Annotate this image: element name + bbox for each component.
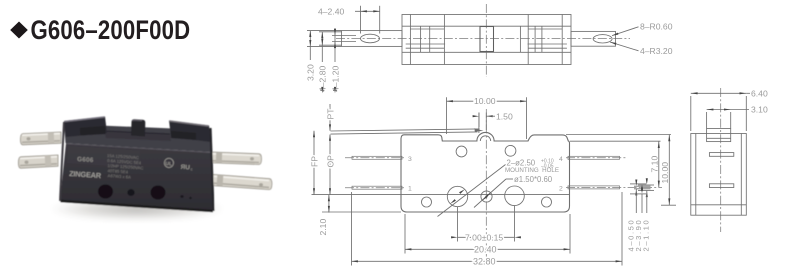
- terminal 2 (front view): [559, 185, 662, 192]
- leader o1.50*0.60: [474, 175, 553, 208]
- hole center extension line: [312, 194, 571, 196]
- svg-text:G606: G606: [77, 156, 94, 164]
- dimension text 4-0.50: [626, 219, 635, 252]
- front view top mounting hole left: [456, 146, 467, 157]
- dimension 4-1.20: [330, 28, 356, 93]
- svg-text:ø1.50*0.60: ø1.50*0.60: [514, 175, 553, 184]
- front view vertical centerline: [485, 109, 487, 258]
- svg-text:1.50: 1.50: [496, 111, 513, 121]
- front view big hole right: [505, 186, 525, 206]
- terminal 3 (front view): [345, 156, 412, 163]
- printed text G606: [77, 156, 94, 164]
- dimension 6.40: [691, 88, 768, 131]
- dimension PT: [325, 104, 335, 131]
- svg-text:MOUNTING HOLE: MOUNTING HOLE: [505, 167, 559, 174]
- top view horizontal centerline: [336, 38, 630, 40]
- top view lower band line: [402, 51, 571, 53]
- switch body bottom edge: [61, 201, 214, 211]
- plunger centerline above hump: [478, 113, 480, 134]
- svg-text:c: c: [190, 166, 192, 171]
- switch terminal right lower: [213, 174, 272, 189]
- printed UL marks: [164, 158, 193, 172]
- top view left terminal block: [406, 15, 445, 65]
- switch terminal left lower: [18, 155, 58, 168]
- side view vertical centerline: [720, 88, 722, 232]
- terminal 1 (front view): [345, 186, 412, 193]
- svg-text:4–R3.20: 4–R3.20: [640, 46, 673, 56]
- top view upper band line: [402, 25, 571, 27]
- dimension 7.00+-0.15: [449, 206, 523, 242]
- svg-text:20.40: 20.40: [474, 244, 497, 254]
- dimension 3.10: [707, 105, 768, 129]
- right extension line from boss top: [566, 134, 671, 136]
- switch body right top block: [169, 121, 211, 143]
- svg-text:7.00±0.15: 7.00±0.15: [465, 232, 503, 242]
- printed text ZINGEAR: [69, 169, 102, 180]
- top view body outline: [402, 15, 571, 65]
- dimension 10.00 (right vertical): [660, 135, 676, 206]
- switch body front face: [60, 143, 214, 211]
- front face small marks: [180, 195, 191, 199]
- top view vertical centerline: [485, 4, 487, 77]
- switch body top face: [64, 124, 212, 152]
- svg-text:10.00: 10.00: [474, 96, 496, 106]
- svg-text:4–1.20: 4–1.20: [330, 65, 340, 92]
- dimension 10.00 (top of front view): [447, 96, 527, 139]
- dimension 7.10: [649, 141, 659, 187]
- front face hole small center: [127, 189, 134, 196]
- leader 4-R3.20: [610, 42, 673, 56]
- right extension line from body top: [570, 140, 661, 142]
- svg-text:3.10: 3.10: [751, 105, 768, 115]
- leader 8-R0.60: [612, 22, 673, 36]
- front view pivot hump inner arc: [480, 136, 490, 141]
- dimension OP: [325, 134, 335, 194]
- top view left terminal blade: [342, 31, 403, 47]
- svg-text:8–R0.60: 8–R0.60: [640, 22, 673, 32]
- dimension 1.50: [472, 111, 513, 130]
- side view body outline: [691, 134, 747, 216]
- svg-text:2–1.10: 2–1.10: [642, 219, 651, 252]
- front view small center hole: [481, 191, 492, 202]
- side view plunger: [707, 129, 731, 142]
- dimension 3.20 (top view terminal width): [305, 31, 341, 81]
- front view bottom corner hole right: [542, 197, 552, 207]
- lever arm: [331, 128, 484, 134]
- front view body outline: [401, 132, 570, 212]
- dimension text 2-1.10: [642, 219, 651, 252]
- svg-text:6.40: 6.40: [751, 88, 768, 98]
- dimension text 2-3.90: [634, 219, 643, 252]
- svg-text:2.10: 2.10: [318, 219, 328, 236]
- switch body left top block: [64, 117, 107, 138]
- svg-text:PT: PT: [325, 108, 335, 120]
- front view top mounting hole right: [505, 145, 516, 156]
- dimension 20.40: [405, 214, 570, 254]
- title text G606-200F00D: [31, 16, 191, 45]
- dimension 32.80: [352, 192, 623, 266]
- front view big hole left: [447, 186, 467, 206]
- svg-text:4–2.40: 4–2.40: [318, 6, 345, 16]
- svg-text:4: 4: [559, 156, 563, 163]
- switch plunger nub: [131, 119, 145, 136]
- svg-text:3.20: 3.20: [305, 64, 315, 81]
- switch body right edge: [211, 128, 214, 211]
- top view right terminal block: [520, 15, 567, 65]
- svg-text:10.00: 10.00: [660, 162, 670, 184]
- svg-text:FP: FP: [309, 156, 319, 167]
- svg-text:1: 1: [408, 186, 412, 193]
- dimension 2.10: [318, 195, 329, 236]
- svg-text:32.80: 32.80: [473, 256, 496, 266]
- svg-text:3: 3: [408, 156, 412, 163]
- dimension 4-2.80: [318, 32, 342, 94]
- photo shadow: [49, 198, 225, 221]
- front face hole big left: [98, 185, 113, 199]
- printed ratings text: [105, 153, 144, 181]
- svg-text:7.10: 7.10: [649, 156, 659, 173]
- top view right terminal blade: [571, 31, 616, 46]
- switch body left edge: [60, 122, 64, 201]
- front face hole big right: [151, 186, 166, 200]
- svg-text:UL: UL: [165, 161, 172, 167]
- switch terminal left upper: [20, 132, 61, 145]
- side view terminal tab upper: [709, 153, 733, 157]
- front view bottom corner hole left: [422, 197, 432, 207]
- side view terminal tab lower: [709, 184, 733, 188]
- svg-text:G606–200F00D: G606–200F00D: [31, 16, 191, 45]
- side view bottom band: [691, 204, 747, 206]
- svg-text:OP: OP: [325, 155, 335, 168]
- small dims cluster near terminal 2: [630, 180, 654, 214]
- top view center plunger rect: [480, 27, 494, 52]
- terminal 4 (front view): [559, 156, 626, 163]
- switch terminal right upper: [212, 152, 262, 165]
- dimension 4-2.40: [318, 6, 380, 34]
- svg-text:4–2.80: 4–2.80: [318, 65, 328, 92]
- body bottom extension line: [322, 211, 401, 213]
- svg-text:2: 2: [559, 185, 563, 192]
- leader 2-o2.50 mounting hole: [438, 159, 559, 217]
- svg-text:ЯU: ЯU: [180, 164, 190, 172]
- dimension FP: [309, 131, 319, 195]
- side view inner edge lines: [696, 134, 742, 216]
- title diamond bullet: [10, 22, 28, 39]
